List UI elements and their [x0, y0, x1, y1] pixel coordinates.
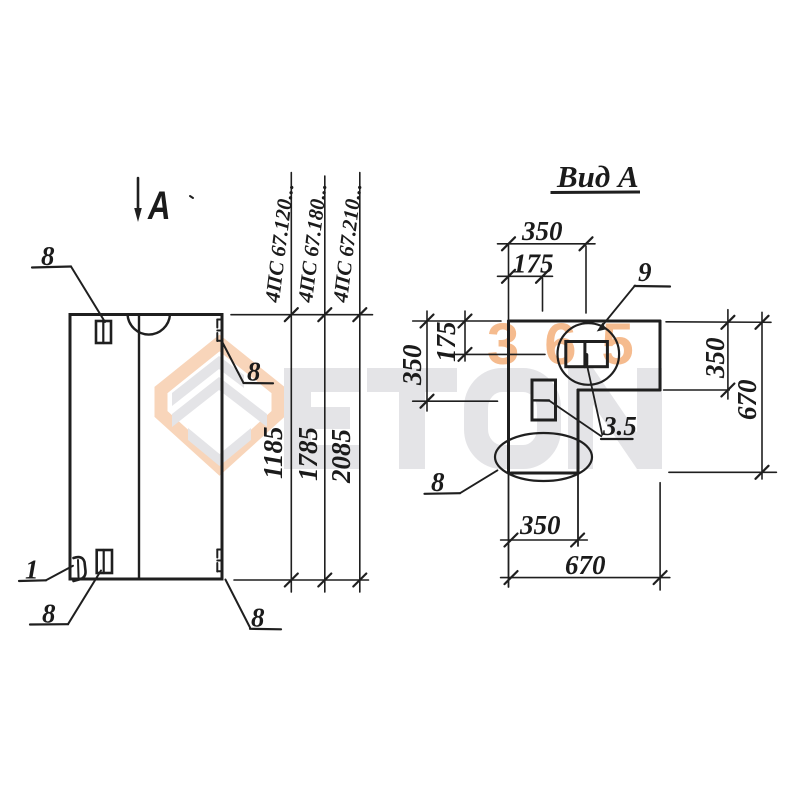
svg-text:8: 8 [42, 599, 56, 629]
svg-text:175: 175 [513, 249, 554, 279]
right dims: ext top [666, 321, 771, 324]
watermark word ETON: letter O [476, 380, 549, 457]
embed plate bottom-left [97, 550, 112, 573]
svg-text:1: 1 [25, 555, 39, 585]
section arrow [137, 178, 140, 212]
flange right edge [659, 321, 662, 390]
svg-text:670: 670 [732, 379, 762, 420]
detail circle 9 [558, 323, 620, 385]
slot plate [532, 380, 556, 420]
svg-text:8: 8 [251, 603, 265, 633]
slot slit [532, 399, 549, 402]
panel outline [70, 315, 222, 580]
left dims: ext top [413, 320, 501, 322]
svg-text:1785: 1785 [293, 427, 323, 481]
watermark logo chevron band C [188, 428, 251, 466]
oval callout 8 [495, 433, 592, 481]
plate in circle [566, 342, 608, 367]
watermark word ETON: letter T [367, 368, 457, 469]
leader label 1 [19, 579, 46, 582]
top 350 dim: left ext [508, 245, 510, 321]
svg-text:1185: 1185 [258, 426, 288, 479]
ticks left dims [421, 315, 472, 408]
watermark word ETON: letter E [284, 368, 360, 469]
left 175 vdim [464, 311, 466, 361]
bottom 670 dim line [501, 577, 670, 579]
section top edge [509, 320, 661, 323]
right 670 vdim [761, 312, 763, 479]
bar right edge [577, 390, 580, 473]
opening arc [128, 315, 171, 335]
bottom 350 dim line [501, 539, 588, 541]
svg-text:4ПС 67.180...: 4ПС 67.180... [293, 182, 332, 305]
bottom extension line [234, 579, 369, 581]
leader 3.5 from slit [549, 401, 601, 437]
leader label 8 right view [425, 492, 461, 495]
svg-text:350: 350 [519, 510, 561, 540]
bar bottom edge [511, 472, 578, 475]
left dims: ext bottom [413, 400, 498, 402]
flange bottom edge [578, 389, 660, 392]
right dims: ext flange bottom [664, 389, 730, 391]
label 3.5 underline [601, 438, 633, 440]
svg-text:350: 350 [397, 344, 427, 386]
ticks right dims [721, 316, 768, 479]
svg-text:Вид А: Вид А [556, 159, 639, 194]
leader 9 [602, 286, 636, 327]
svg-text:670: 670 [565, 550, 606, 580]
weld mark [584, 355, 588, 364]
svg-text:9: 9 [638, 257, 652, 287]
svg-text:175: 175 [431, 322, 461, 363]
leader label 8 top-left [32, 267, 71, 268]
bar right edge extension [577, 473, 579, 546]
dim line 2085 [359, 173, 361, 593]
svg-text:350: 350 [700, 337, 730, 379]
svg-text:A: A [147, 183, 170, 228]
svg-text:4ПС 67.210...: 4ПС 67.210... [328, 182, 367, 305]
top 350 right ext [585, 246, 587, 313]
watermark logo chevron band A [172, 356, 244, 406]
top extension line [231, 314, 373, 316]
bottom right ext [659, 483, 661, 590]
title underline [551, 191, 641, 195]
left dims: ext mid [444, 353, 545, 355]
watermark word ETON: letter N [568, 368, 662, 469]
lifting hook detail [74, 557, 86, 581]
svg-text:8: 8 [41, 241, 55, 271]
hidden plate top-right [217, 320, 222, 342]
svg-text:2085: 2085 [326, 429, 356, 484]
right dims: ext bottom [669, 471, 777, 473]
leader 3.5 from weld [586, 362, 602, 435]
watermark logo chevron band B [172, 377, 267, 427]
ticks top [285, 308, 367, 586]
top 175 dim line [498, 275, 553, 277]
svg-text:4ПС 67.120...: 4ПС 67.120... [260, 182, 299, 305]
top 350 dim line [498, 243, 596, 245]
left edge extension [508, 473, 510, 587]
leader label 8 mid-right [223, 343, 244, 383]
hidden plate bottom-right [217, 550, 222, 572]
watermark logo hexagon ring [161, 343, 278, 467]
svg-text:8: 8 [431, 467, 445, 497]
left 350 vdim [426, 311, 428, 411]
dim line 1185 [290, 173, 292, 593]
svg-text:8: 8 [247, 357, 261, 387]
dim line 1785 [324, 176, 326, 592]
stray dot [190, 196, 193, 198]
leader label 8 bottom-left [30, 623, 68, 625]
embed plate top-left [96, 321, 111, 343]
ticks bottom dims [505, 534, 667, 585]
top 175 right ext [542, 278, 544, 311]
svg-text:350: 350 [521, 216, 563, 246]
ticks top dims [502, 237, 593, 282]
leader label 8 bottom-right [225, 580, 250, 628]
panel inner edge [138, 315, 140, 580]
section left edge [507, 321, 510, 473]
right 350 vdim [727, 310, 729, 399]
svg-text:3.5: 3.5 [602, 411, 637, 441]
